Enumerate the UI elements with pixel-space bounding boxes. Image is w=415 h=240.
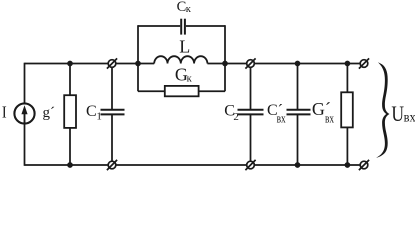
resistor Gk	[165, 86, 199, 96]
svg-text:C: C	[86, 103, 97, 120]
capacitor C'vx	[287, 110, 311, 115]
svg-text:L: L	[179, 37, 190, 57]
terminal (slashed circle) C1 bottom	[107, 160, 117, 170]
label G'vx	[312, 99, 335, 126]
label Gk	[175, 65, 193, 85]
wire G'vx branch upper	[346, 64, 348, 93]
resistor G'vx	[341, 92, 353, 127]
label Uvx	[391, 102, 415, 127]
label C2	[224, 102, 239, 123]
wire C'vx branch lower	[297, 114, 299, 165]
wire C1 branch lower	[111, 114, 113, 161]
wire top rail segment 3	[207, 63, 246, 65]
node dot C'vx bottom	[295, 162, 301, 168]
label C'vx	[267, 102, 286, 126]
wire g' branch lower	[69, 128, 71, 165]
current source I	[14, 103, 34, 123]
label C1	[86, 103, 102, 123]
terminal (slashed circle) C1 top	[107, 58, 117, 68]
wire bottom rail segment 2	[116, 164, 247, 166]
node dot tank left	[135, 61, 141, 67]
svg-text:1: 1	[96, 111, 102, 123]
brace	[376, 62, 389, 158]
svg-text:вх: вх	[325, 112, 335, 126]
svg-text:U: U	[391, 102, 404, 127]
node dot G'vx bottom	[345, 162, 351, 168]
svg-text:вх: вх	[404, 109, 415, 125]
wire g' branch upper	[69, 64, 71, 96]
wire top rail segment 2	[116, 63, 154, 65]
wire C1 branch upper	[111, 67, 113, 109]
wire left branch upper	[24, 63, 26, 104]
capacitor Ck	[181, 19, 185, 35]
wire top rail segment 4	[254, 63, 360, 65]
resistor g'	[64, 95, 76, 128]
terminal (slashed circle) output bottom	[359, 160, 369, 170]
svg-text:к: к	[187, 74, 193, 85]
wire G'vx branch lower	[346, 127, 348, 165]
wire tank right vertical	[224, 25, 226, 91]
wire C2 branch upper	[250, 67, 252, 109]
terminal (slashed circle) C2 top	[245, 58, 255, 68]
inductor L	[154, 56, 207, 63]
node dot g' top	[67, 61, 73, 67]
svg-text:g´: g´	[43, 105, 56, 121]
node dot G'vx top	[345, 61, 351, 67]
node dot g' bottom	[67, 162, 73, 168]
wire bottom rail segment 3	[254, 164, 360, 166]
svg-text:2: 2	[233, 111, 239, 123]
wire tank top branch right	[186, 25, 225, 27]
wire tank left vertical	[137, 25, 139, 91]
svg-text:к: к	[186, 4, 192, 15]
wire C'vx branch upper	[297, 64, 299, 110]
terminal (slashed circle) C2 bottom	[245, 160, 255, 170]
wire left branch lower	[24, 124, 26, 166]
label Ck	[177, 0, 192, 15]
wire tank top branch left	[138, 25, 180, 27]
capacitor C2	[238, 110, 264, 115]
wire tank bottom branch left	[138, 90, 165, 92]
terminal (slashed circle) output top	[359, 58, 369, 68]
wire C2 branch lower	[250, 114, 252, 161]
capacitor C1	[101, 110, 125, 115]
wire top rail segment 1	[25, 63, 109, 65]
svg-text:вх: вх	[277, 112, 287, 126]
wire bottom rail segment 1	[25, 164, 109, 166]
svg-text:I: I	[2, 103, 7, 121]
node dot C'vx top	[295, 61, 301, 67]
node dot tank right	[222, 61, 228, 67]
wire tank bottom branch right	[199, 90, 225, 92]
